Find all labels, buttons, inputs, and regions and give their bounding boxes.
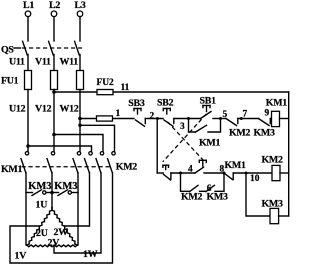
svg-text:1W: 1W <box>83 249 98 260</box>
wire node2 down to row2 <box>156 119 158 174</box>
svg-text:W11: W11 <box>60 57 79 68</box>
fuse FU2 upper <box>97 78 130 95</box>
node 4 <box>179 164 193 174</box>
contact KM2 NC interlock <box>226 119 251 139</box>
contactor KM2 main contacts <box>85 152 138 173</box>
wire KM1 pole1 down <box>25 173 27 245</box>
svg-text:V11: V11 <box>35 57 51 68</box>
contact KM1 NO auxiliary (row2) <box>224 160 272 180</box>
wire node2 to node3 <box>174 118 201 120</box>
svg-text:KM2: KM2 <box>116 162 138 173</box>
contact SB1 NC (row2) <box>163 165 171 180</box>
svg-text:L2: L2 <box>49 0 60 11</box>
wire QS to FU1 pole2 <box>53 55 55 71</box>
wire right rail down <box>288 92 290 216</box>
svg-text:9: 9 <box>265 109 270 119</box>
wire W12 down to KM1 <box>79 90 81 153</box>
node 2 <box>150 112 160 122</box>
wire L2 to QS <box>53 17 55 41</box>
contact KM2 NO self-hold (row3) <box>181 185 206 202</box>
wire U12 down to KM1 <box>27 90 29 153</box>
pushbutton SB2 NC contact <box>157 98 174 127</box>
wire KM1 pole3 down <box>77 173 79 245</box>
row3 branch from node4 <box>181 173 190 191</box>
wire U12 to KM2 pole1 <box>28 146 92 152</box>
svg-text:U11: U11 <box>9 57 25 68</box>
svg-text:2: 2 <box>150 112 155 122</box>
wire V12 to KM2 pole2 <box>54 135 103 153</box>
contactor KM1 main contacts <box>1 152 81 175</box>
wire W12 to KM2 pole3 <box>80 125 115 152</box>
wire KM1 pole2 down to KM3 node <box>51 173 53 208</box>
svg-text:10: 10 <box>250 174 260 184</box>
svg-text:KM3: KM3 <box>207 191 229 202</box>
wire node10 down to KM3 coil <box>246 173 270 216</box>
switch QS <box>1 41 82 55</box>
svg-text:1: 1 <box>116 109 121 119</box>
wire node7 segment <box>238 118 259 120</box>
node junction U12-KM2 branch <box>26 144 30 148</box>
svg-text:U12: U12 <box>9 103 26 114</box>
contact KM3 NC interlock <box>254 119 276 139</box>
contact KM1 self-holding branch <box>189 119 221 149</box>
svg-text:1U: 1U <box>36 200 48 211</box>
svg-text:FU2: FU2 <box>97 78 114 88</box>
wire QS to FU1 pole1 <box>27 55 29 71</box>
wire L1 to QS <box>27 17 29 41</box>
motor winding V coil (triangle bottom side) <box>27 245 78 247</box>
svg-text:3: 3 <box>180 122 185 132</box>
node junction W12-wire1 <box>78 117 82 121</box>
svg-text:KM1: KM1 <box>1 164 23 175</box>
svg-text:KM1: KM1 <box>225 160 247 171</box>
wire 1 node2 segment <box>145 118 163 120</box>
svg-text:W12: W12 <box>60 103 79 114</box>
node 7 <box>240 110 248 121</box>
node 8 <box>220 165 226 175</box>
wire 11 top control rail <box>54 91 289 93</box>
node junction V12-wire11 <box>52 90 56 94</box>
svg-text:KM2: KM2 <box>229 128 251 139</box>
wire KM2 pole3 down wrap to left side tap <box>10 173 113 263</box>
svg-text:7: 7 <box>243 110 248 120</box>
contactor KM3 bridge contacts <box>26 181 78 196</box>
node L3 <box>75 0 86 17</box>
wire KM2 pole2 down wrap to bottom tap <box>54 173 101 253</box>
wire node5 segment <box>213 118 226 120</box>
svg-text:V12: V12 <box>35 103 52 114</box>
svg-text:SB2: SB2 <box>157 98 174 109</box>
wire V12 down to KM1 <box>53 90 55 153</box>
node 10 <box>245 172 260 184</box>
wire L3 to QS <box>79 17 81 41</box>
row2 wire left <box>157 172 163 174</box>
node 3 <box>180 117 190 132</box>
dashed link SB2 to its NO contact <box>168 122 205 161</box>
svg-text:L1: L1 <box>23 0 34 11</box>
wire KM2 pole1 down wrap to right side tap <box>65 173 90 226</box>
coil KM1 <box>266 98 289 127</box>
wire into KM1 coil <box>270 118 271 120</box>
node junction W12-KM2 branch <box>78 124 82 128</box>
contact SB2 NO (row2) <box>195 160 206 173</box>
wire QS to FU1 pole3 <box>79 55 81 71</box>
winding labels <box>15 227 98 261</box>
node 5 <box>219 110 228 120</box>
pushbutton SB1 start NO <box>200 96 217 119</box>
svg-text:SB3: SB3 <box>128 98 145 109</box>
svg-text:KM3: KM3 <box>254 128 276 139</box>
svg-text:2U: 2U <box>36 228 48 239</box>
svg-text:KM1: KM1 <box>199 138 221 149</box>
coil KM2 <box>262 155 289 181</box>
motor winding U coil (triangle left side) <box>27 208 53 246</box>
pushbutton SB3 stop <box>128 98 145 126</box>
node L1 <box>23 0 34 17</box>
node L2 <box>49 0 60 17</box>
svg-text:KM2: KM2 <box>181 191 203 202</box>
wire node8 segment <box>204 172 224 174</box>
svg-text:FU1: FU1 <box>1 76 19 87</box>
svg-text:4: 4 <box>188 164 193 174</box>
svg-text:KM2: KM2 <box>262 155 284 166</box>
dashed link SB1 to its NC contact <box>163 114 207 162</box>
svg-text:L3: L3 <box>75 0 86 11</box>
dashed interlock line KM1-KM2 <box>22 166 112 168</box>
svg-text:QS: QS <box>1 45 14 56</box>
motor winding W coil (triangle right side) <box>52 208 78 246</box>
wire node4 segment <box>171 172 195 174</box>
node junction V12-KM2 branch <box>52 133 56 137</box>
contact KM3 NO (row3) <box>206 173 228 202</box>
svg-text:KM1: KM1 <box>266 98 288 109</box>
fuse FU2 lower <box>97 109 121 121</box>
svg-text:11: 11 <box>121 83 130 93</box>
wire 1 control feed <box>80 118 134 120</box>
svg-text:1V: 1V <box>15 250 28 261</box>
svg-text:2W: 2W <box>54 227 69 238</box>
fuse FU1 <box>1 71 84 90</box>
coil KM3 <box>262 199 289 224</box>
